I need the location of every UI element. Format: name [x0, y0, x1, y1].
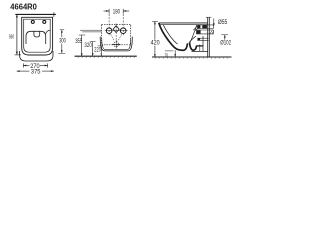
svg-text:180: 180	[113, 10, 121, 16]
rear view: drain cross vertical	[115, 40, 117, 49]
side view: floor line	[152, 56, 232, 58]
dim 355 line	[81, 35, 83, 56]
svg-text:375: 375	[31, 70, 41, 76]
dim 300 bottom tick	[58, 52, 65, 54]
svg-text:355: 355	[75, 39, 82, 45]
dim 300 line upper	[61, 30, 63, 38]
side view: rim lower line	[160, 24, 208, 26]
rear view: hole center dots	[109, 30, 110, 31]
side view: bowl bottom and trap	[190, 43, 197, 51]
rear view: diamond	[113, 26, 119, 33]
rear view: dashed centerline left hole	[108, 14, 110, 37]
dim 590 bottom arrow	[16, 52, 18, 55]
rim corner arc (plan)	[46, 30, 50, 34]
dim 420 top tick	[152, 20, 158, 22]
rear view: drain dashed circle	[114, 42, 119, 47]
dim 270 right tick	[47, 63, 49, 67]
rear view: center dashed line	[115, 24, 117, 41]
dim O102 extension	[221, 34, 228, 36]
dim 375 arrows	[17, 70, 20, 72]
dim 220 top tick	[98, 45, 104, 47]
side view: rim top line	[159, 22, 208, 24]
side view: trap to outlet curve	[189, 36, 196, 42]
seat outline U (plan)	[20, 51, 53, 61]
rear view: floor hatching	[78, 56, 136, 58]
dim 300 top tick	[60, 29, 64, 31]
dim 420 line upper	[154, 21, 156, 39]
side view: supply stub outline	[197, 24, 214, 26]
svg-text:590: 590	[9, 34, 14, 40]
side view: front inner curve	[163, 25, 177, 44]
rear view: fixing hole left	[106, 28, 112, 34]
dim 180 arrow left	[106, 10, 109, 12]
rear view: fixing hole right	[120, 28, 126, 34]
side view: wall line front	[207, 17, 209, 57]
dim 590 line	[16, 14, 18, 54]
side view: outlet stub outline	[196, 29, 214, 31]
side view: bowl rear inner	[199, 45, 201, 52]
rear view: drain cross horizontal	[112, 43, 120, 45]
rear view: bowl inner	[102, 38, 131, 49]
svg-text:320: 320	[84, 43, 92, 49]
side view: bowl rear line	[202, 36, 204, 51]
dim 180 arrow right	[123, 10, 126, 12]
dim 270 arrows	[23, 65, 26, 67]
dim 180 line left	[104, 10, 110, 12]
svg-text:220: 220	[94, 47, 101, 53]
dim 270 left tick	[22, 63, 24, 67]
side view: wall top tick	[206, 16, 212, 18]
dim O102 leader	[224, 35, 226, 40]
dim 70 top tick	[165, 50, 174, 52]
rear view: floor line	[75, 55, 137, 57]
dim 320 top tick	[90, 41, 96, 43]
rear view: bowl outer	[100, 37, 132, 51]
sump U (plan)	[34, 31, 40, 37]
rear view: dashed diagonals to drain	[111, 34, 115, 40]
side view: front outer curve	[159, 23, 188, 50]
dim 180 tick right	[122, 9, 124, 14]
plan view: wall line end tick	[53, 12, 55, 17]
rear view: left extension lines	[80, 29, 102, 31]
side view: wall line back	[208, 17, 210, 57]
side view: bolt head	[198, 38, 201, 40]
rear view: dashed carrier rect	[102, 24, 131, 45]
side view: flush pipe diagonals	[193, 26, 197, 30]
side view: fixing bolt lines	[197, 37, 208, 39]
dim 270 line	[23, 65, 29, 67]
seat hinge hole right	[43, 20, 46, 23]
dim 220 line	[100, 46, 102, 56]
rear view: dashed centerline right hole	[122, 14, 124, 37]
dim 590 bottom tick	[15, 54, 22, 56]
wc inner rim (plan)	[24, 19, 51, 52]
svg-text:300: 300	[59, 39, 66, 45]
dim O55 leader	[213, 19, 215, 26]
dim 180 tick left	[108, 9, 110, 14]
bowl water dome (plan)	[26, 31, 46, 44]
dim 180 line right	[123, 10, 129, 12]
dim 320 line	[92, 42, 94, 57]
rear view: hole centerline ticks	[105, 30, 128, 32]
dim 355 top tick	[79, 34, 85, 36]
side view: outlet hatched block	[196, 30, 200, 34]
svg-text:70: 70	[165, 53, 168, 59]
dim 420 line lower	[154, 46, 156, 57]
dim 70 leader	[174, 50, 176, 57]
side view: bowl back inner line	[190, 25, 197, 43]
plan view: wall line	[15, 13, 56, 15]
side view: supply hatched block	[197, 25, 200, 28]
svg-text:420: 420	[151, 41, 161, 47]
seat hinge hole left	[31, 20, 34, 23]
dim 300 line lower	[61, 44, 63, 53]
svg-text:Ø55: Ø55	[218, 20, 228, 26]
side view: outlet hatch right of wall	[210, 30, 213, 34]
svg-text:Ø102: Ø102	[220, 41, 231, 47]
wc body outline (plan)	[22, 17, 53, 55]
side view: floor hatching	[155, 57, 229, 59]
dim 375 line	[17, 70, 30, 72]
dim 590 top arrow	[16, 14, 18, 17]
svg-text:4664R0: 4664R0	[10, 2, 37, 11]
